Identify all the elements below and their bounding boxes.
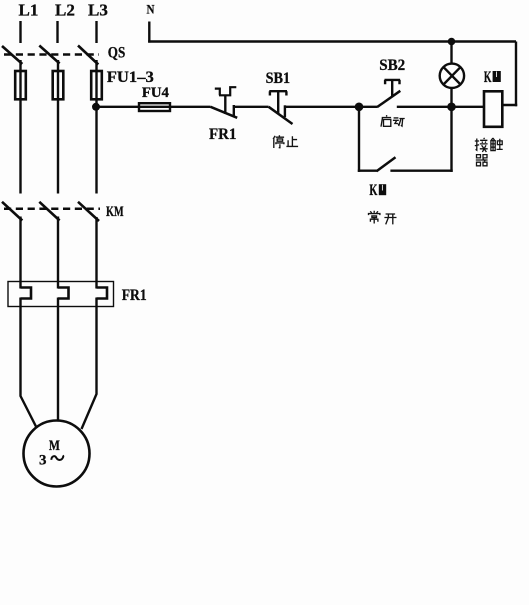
svg-text:QS: QS: [108, 45, 126, 62]
FR1 heater element L1: [21, 288, 32, 299]
label KM coil: [484, 69, 501, 86]
svg-text:FR1: FR1: [122, 287, 147, 304]
wire L1 incoming: [19, 21, 21, 43]
label phase tilde: [51, 455, 63, 460]
FR1 NC contact stem: [224, 95, 226, 115]
disconnector QS blade L1: [2, 46, 22, 64]
fuse FU3: [91, 71, 102, 99]
KM linkage dashed line: [4, 208, 100, 211]
label 接触器 (contactor): [475, 138, 503, 166]
svg-text:FR1: FR1: [209, 126, 237, 143]
fuse FU4: [139, 103, 170, 111]
label KM auxiliary: [369, 182, 386, 199]
node N rail to lamp: [448, 38, 456, 46]
wire FR1 to SB1: [234, 106, 269, 108]
svg-text:L2: L2: [55, 1, 75, 20]
node control line left: [355, 103, 364, 112]
wire L3 FR1 to motor: [82, 298, 97, 430]
KM auxiliary right vertical: [450, 107, 452, 172]
svg-text:K: K: [484, 69, 492, 86]
svg-text:SB2: SB2: [379, 57, 405, 74]
node junction L3 to control circuit: [92, 103, 100, 111]
KM auxiliary right lead: [390, 169, 452, 171]
FR1 heater element L3: [97, 288, 108, 299]
wire L2 incoming: [56, 21, 58, 43]
FR1 heater element L2: [58, 288, 69, 299]
svg-text:3: 3: [39, 453, 47, 469]
wire SB1 to node: [285, 106, 359, 108]
wire right side drop: [515, 42, 517, 107]
wire L1 QS to KM: [19, 60, 21, 194]
wire L1 KM to FR1: [19, 217, 21, 289]
pushbutton SB2 stem: [391, 80, 393, 97]
KM auxiliary NO blade: [377, 157, 396, 171]
svg-text:N: N: [147, 2, 156, 17]
pushbutton SB1 cap: [269, 91, 287, 95]
svg-text:SB1: SB1: [266, 70, 291, 87]
wire coil right lead: [501, 104, 517, 106]
svg-text:K: K: [369, 182, 377, 199]
wire N rail: [148, 40, 516, 42]
wire L3 incoming: [95, 21, 97, 43]
contactor coil KM: [484, 91, 502, 127]
wire control line FU4 segment: [96, 106, 211, 108]
pushbutton SB1 right post: [284, 105, 286, 117]
node control line right (lamp/coil): [447, 103, 456, 112]
KM auxiliary branch left vertical: [358, 107, 360, 172]
motor M circle: [24, 421, 90, 487]
wire lamp branch bottom: [450, 88, 452, 107]
contactor KM main blade L3: [78, 202, 99, 221]
pushbutton SB2 blade (NO): [378, 91, 401, 107]
fuse FU1: [15, 71, 26, 99]
wire L3 QS to KM: [95, 60, 97, 194]
wire L1 FR1 to motor: [21, 298, 37, 428]
svg-text:L1: L1: [19, 1, 39, 20]
label 常开 (normally open): [369, 211, 397, 225]
contactor KM main blade L1: [2, 202, 22, 221]
wire node to SB2: [359, 106, 378, 108]
QS linkage dashed line: [4, 53, 99, 56]
svg-text:FU4: FU4: [142, 85, 169, 101]
wire L3 KM to FR1: [95, 217, 97, 289]
contactor KM main blade L2: [39, 202, 59, 221]
wire N drop: [148, 22, 150, 43]
fuse FU2: [53, 71, 64, 99]
disconnector QS blade L2: [39, 46, 59, 64]
label 停止 (stop): [273, 135, 298, 148]
FR1 NC contact blade: [211, 107, 238, 118]
wire SB2 to node right: [397, 106, 452, 108]
wire lamp branch top: [450, 42, 452, 65]
svg-text:FU1–3: FU1–3: [107, 69, 154, 86]
pushbutton SB1 stem: [277, 91, 279, 114]
disconnector QS blade L3: [78, 46, 98, 65]
KM auxiliary left lead: [358, 169, 377, 171]
wire L2 FR1 to motor: [57, 298, 59, 421]
FR1 NC contact right post: [233, 105, 235, 117]
thermal relay FR1 box: [8, 282, 114, 307]
svg-text:KM: KM: [106, 204, 124, 220]
wire node to coil: [452, 106, 485, 108]
svg-text:M: M: [49, 438, 60, 454]
svg-text:L3: L3: [88, 1, 108, 20]
pushbutton SB2 cap: [385, 80, 401, 84]
label 启动 (start): [381, 115, 405, 127]
indicator lamp: [440, 64, 464, 88]
wire L2 QS to KM: [57, 60, 59, 194]
FR1 thermal release symbol: [215, 87, 237, 95]
pushbutton SB1 blade: [269, 107, 293, 124]
wire L2 KM to FR1: [57, 217, 59, 289]
